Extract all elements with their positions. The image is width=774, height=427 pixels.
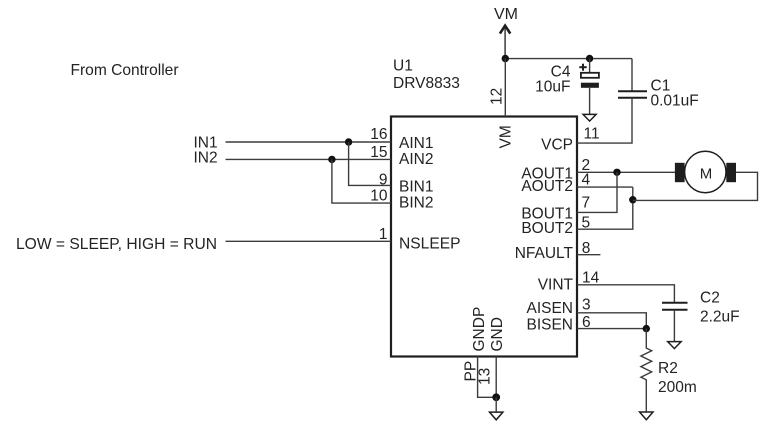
- svg-text:13: 13: [477, 368, 494, 385]
- svg-text:8: 8: [582, 240, 591, 257]
- note: From Controller: [71, 62, 180, 79]
- wire: pin 14 VINT to C2: [577, 285, 674, 303]
- svg-text:200m: 200m: [658, 379, 697, 396]
- svg-text:7: 7: [582, 195, 591, 212]
- pin number PP: [463, 361, 480, 382]
- C1 value label: [651, 78, 699, 110]
- pin name BIN2: [399, 194, 433, 211]
- svg-text:VINT: VINT: [538, 277, 574, 294]
- svg-text:DRV8833: DRV8833: [393, 75, 460, 92]
- svg-text:BISEN: BISEN: [526, 316, 573, 333]
- capacitor C4 (10uF polarized): [577, 59, 599, 115]
- pin name BISEN: [526, 316, 573, 333]
- svg-text:LOW = SLEEP, HIGH = RUN: LOW = SLEEP, HIGH = RUN: [16, 236, 217, 253]
- pin number 12: [488, 88, 505, 105]
- capacitor C2 (2.2uF): [662, 303, 688, 342]
- motor M terminals: [675, 163, 736, 182]
- pin name AOUT1: [521, 165, 573, 182]
- svg-text:15: 15: [370, 144, 387, 161]
- wire: pin 4 AOUT2: [577, 186, 633, 188]
- ground below IC: [490, 412, 503, 420]
- pin name AIN2: [399, 151, 433, 168]
- note: LOW = SLEEP, HIGH = RUN: [16, 236, 217, 253]
- svg-text:BOUT2: BOUT2: [521, 220, 573, 237]
- svg-text:AIN1: AIN1: [399, 135, 433, 152]
- svg-text:10: 10: [370, 188, 388, 205]
- node: motor return junction: [629, 196, 636, 203]
- svg-text:U1: U1: [393, 58, 413, 75]
- pin name AISEN: [526, 300, 573, 317]
- wire: VM rail: [505, 58, 632, 60]
- pin number 14: [582, 269, 600, 286]
- wire: junction to ground: [495, 397, 497, 412]
- R2 value label: [658, 360, 697, 396]
- wire: rail to C1: [631, 59, 633, 91]
- pin number 2: [582, 157, 591, 174]
- pin number 6: [582, 314, 591, 331]
- wire: pin 12 to VM rail: [504, 59, 506, 117]
- pin number 3: [582, 296, 591, 313]
- svg-text:BIN2: BIN2: [399, 194, 433, 211]
- svg-text:5: 5: [582, 215, 591, 232]
- svg-text:12: 12: [488, 88, 505, 105]
- pin name AOUT2: [521, 178, 573, 195]
- pin name BOUT2: [521, 220, 573, 237]
- pin name GNDP: [471, 307, 488, 352]
- pin name VCP: [541, 137, 573, 154]
- input label IN2: [194, 149, 218, 166]
- svg-text:1: 1: [379, 226, 388, 243]
- svg-text:VM: VM: [498, 125, 515, 148]
- svg-text:GND: GND: [489, 317, 506, 351]
- pin number 15: [370, 144, 387, 161]
- pin number 5: [582, 215, 591, 232]
- power flag VM: [494, 6, 518, 58]
- wire: pin 6 BISEN: [577, 328, 646, 330]
- wire: IN1 to pin 16: [226, 141, 392, 143]
- wire: motor return loop: [633, 172, 758, 200]
- wire: GND pin 13: [495, 357, 497, 398]
- svg-text:2.2uF: 2.2uF: [700, 309, 740, 326]
- node: AOUT1 junction: [613, 169, 620, 176]
- pin name VINT: [538, 277, 574, 294]
- pin number 10: [370, 188, 388, 205]
- wire: IN2 branch to pin 10: [332, 159, 391, 203]
- capacitor C1 (0.01uF): [618, 91, 647, 98]
- U1 reference designator: [393, 58, 460, 93]
- ground below C2: [668, 342, 681, 349]
- pin number 13: [477, 368, 494, 385]
- wire: C1 to VCP pin 11: [577, 98, 632, 143]
- ground below C4: [583, 114, 596, 121]
- node: VM junction at pin 12: [502, 55, 509, 62]
- svg-text:GNDP: GNDP: [471, 307, 488, 352]
- svg-text:AIN2: AIN2: [399, 151, 433, 168]
- wire: GNDP pin to GND pin: [478, 357, 497, 398]
- svg-text:3: 3: [582, 296, 591, 313]
- svg-text:AISEN: AISEN: [526, 300, 573, 317]
- pin number 11: [584, 126, 600, 143]
- pin name AIN1: [399, 135, 433, 152]
- wire: pin 8 NFAULT stub: [577, 254, 600, 256]
- svg-text:6: 6: [582, 314, 591, 331]
- pin name BIN1: [399, 178, 433, 195]
- svg-text:14: 14: [582, 269, 600, 286]
- node: ground junction: [492, 393, 500, 401]
- pin name NSLEEP: [399, 236, 461, 253]
- svg-text:R2: R2: [658, 360, 678, 377]
- op-amp U1 body (DRV8833 IC outline): [391, 117, 577, 357]
- pin name VM: [498, 125, 515, 148]
- wire: IN1 branch to pin 9: [349, 142, 391, 185]
- svg-text:VM: VM: [494, 6, 518, 23]
- svg-text:NFAULT: NFAULT: [515, 245, 574, 262]
- wire: IN2 to pin 15: [226, 158, 392, 160]
- svg-text:BIN1: BIN1: [399, 178, 433, 195]
- node: sense junction: [643, 325, 650, 332]
- svg-text:AOUT2: AOUT2: [521, 178, 573, 195]
- node: IN2 junction: [328, 156, 335, 163]
- svg-text:4: 4: [582, 172, 591, 189]
- svg-text:0.01uF: 0.01uF: [651, 93, 699, 110]
- C4 value label: [535, 64, 571, 96]
- motor M body: [685, 151, 726, 192]
- svg-text:16: 16: [370, 126, 387, 143]
- node: IN1 junction: [345, 138, 352, 145]
- wire: AOUT1 branch to pin 7 BOUT1: [577, 172, 617, 212]
- svg-text:9: 9: [379, 171, 388, 188]
- wire: pin 2 AOUT1 to motor: [577, 171, 675, 173]
- wire: note to pin 1: [226, 240, 392, 242]
- pin name NFAULT: [515, 245, 574, 262]
- svg-text:10uF: 10uF: [535, 79, 570, 96]
- node: VM junction at C4: [586, 55, 593, 62]
- pin name GND: [489, 317, 506, 351]
- pin name BOUT1: [521, 205, 573, 222]
- ground below R2: [640, 412, 653, 420]
- svg-text:C2: C2: [700, 290, 720, 307]
- svg-text:11: 11: [584, 126, 600, 143]
- resistor R2 (200m): [641, 329, 652, 412]
- pin number 8: [582, 240, 591, 257]
- pin number 9: [379, 171, 388, 188]
- svg-text:From Controller: From Controller: [71, 62, 180, 79]
- svg-text:VCP: VCP: [541, 137, 573, 154]
- wire: pin 3 AISEN: [577, 313, 646, 329]
- pin number 1: [379, 226, 388, 243]
- wire: AOUT2 branch to pin 5 BOUT2: [577, 187, 633, 229]
- C2 value label: [700, 290, 740, 326]
- svg-text:IN2: IN2: [194, 149, 218, 166]
- svg-text:M: M: [700, 166, 713, 183]
- input label IN1: [194, 135, 218, 152]
- pin number 7: [582, 195, 591, 212]
- pin number 4: [582, 172, 591, 189]
- pin number 16: [370, 126, 387, 143]
- svg-text:NSLEEP: NSLEEP: [399, 236, 461, 253]
